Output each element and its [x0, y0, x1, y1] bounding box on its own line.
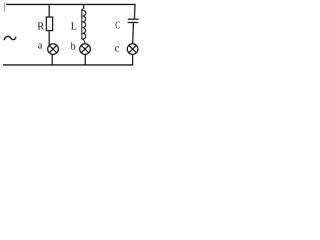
svg-text:C: C [115, 20, 120, 32]
svg-text:R: R [37, 22, 44, 33]
svg-text:a: a [38, 41, 43, 52]
svg-text:c: c [115, 44, 120, 55]
svg-text:b: b [71, 42, 76, 53]
svg-text:L: L [71, 22, 77, 33]
